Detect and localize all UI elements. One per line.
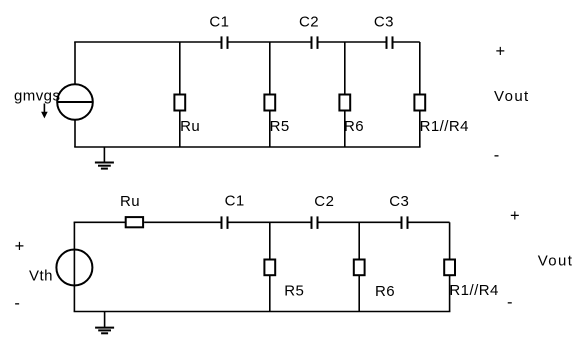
- svg-text:-: -: [494, 146, 500, 164]
- resistor R6 branch wire upper (bottom circuit): [358, 222, 360, 259]
- svg-text:Ru: Ru: [120, 193, 140, 210]
- svg-text:R5: R5: [270, 118, 290, 135]
- wire Ru to C1: [144, 221, 221, 223]
- resistor R5 branch wire upper (bottom circuit): [269, 222, 271, 259]
- svg-text:Ru: Ru: [180, 118, 200, 135]
- capacitor C1 plates: [222, 36, 228, 49]
- ground bar 3 (bottom circuit): [101, 332, 108, 334]
- resistor R5 branch wire upper: [269, 42, 271, 94]
- current source U1 chord: [57, 101, 93, 103]
- capacitor C3 plates: [387, 36, 393, 49]
- ground bar 2: [98, 165, 111, 167]
- wire C1 to C2: [228, 221, 310, 223]
- resistor R1//R4 box: [414, 95, 425, 111]
- resistor R6 branch wire lower: [344, 111, 346, 147]
- svg-text:+: +: [15, 238, 25, 256]
- svg-text:Vout: Vout: [538, 253, 574, 270]
- wire top rail segment 2: [228, 41, 310, 43]
- resistor Ru box (series): [126, 217, 143, 227]
- svg-text:R6: R6: [344, 118, 364, 135]
- resistor R1//R4 branch wire upper: [419, 42, 421, 94]
- capacitor C2 plates (bottom): [312, 216, 318, 229]
- svg-text:gmvgs: gmvgs: [14, 88, 60, 105]
- svg-text:+: +: [495, 43, 505, 61]
- capacitor C2 plates: [312, 36, 318, 49]
- svg-text:Vth: Vth: [29, 268, 53, 285]
- capacitor C1 plates (bottom): [222, 216, 228, 229]
- svg-text:C1: C1: [209, 13, 229, 30]
- svg-text:C1: C1: [225, 193, 245, 210]
- resistor Ru branch wire lower: [179, 111, 181, 147]
- wire top rail segment 3: [318, 41, 385, 43]
- wire bottom rail (bottom circuit): [74, 311, 451, 313]
- resistor R6 box: [339, 95, 350, 111]
- ground bar 1: [95, 162, 114, 164]
- current direction arrow: [41, 104, 48, 119]
- wire top-left vertical (source to top rail): [74, 42, 76, 84]
- wire C3 to right edge: [408, 221, 449, 223]
- svg-text:-: -: [507, 294, 513, 312]
- resistor Ru branch wire upper: [179, 42, 181, 94]
- wire left vertical through source: [73, 222, 75, 311]
- wire C2 to C3: [318, 221, 400, 223]
- resistor R5 box (bottom circuit): [264, 260, 275, 276]
- svg-text:R1//R4: R1//R4: [449, 282, 498, 299]
- wire source bottom to bottom rail: [74, 120, 76, 147]
- svg-text:C3: C3: [374, 13, 394, 30]
- resistor R6 branch wire upper: [344, 42, 346, 94]
- resistor R6 branch wire lower (bottom circuit): [358, 276, 360, 312]
- ground bar 1 (bottom circuit): [95, 327, 114, 329]
- resistor R6 box (bottom circuit): [354, 260, 365, 276]
- resistor R5 branch wire lower (bottom circuit): [269, 276, 271, 312]
- capacitor C3 plates (bottom): [402, 216, 408, 229]
- resistor R1//R4 box (bottom circuit): [444, 260, 455, 276]
- wire bottom rail: [74, 146, 420, 148]
- svg-text:R6: R6: [375, 283, 395, 300]
- wire top rail segment 1: [74, 41, 220, 43]
- current source U1 circle: [57, 84, 93, 120]
- svg-text:C2: C2: [314, 193, 334, 210]
- svg-text:R5: R5: [284, 283, 304, 300]
- voltage source Vth circle: [56, 250, 92, 286]
- ground bar 2 (bottom circuit): [98, 329, 111, 331]
- svg-text:C3: C3: [389, 193, 409, 210]
- resistor R1//R4 branch wire lower (bottom circuit): [449, 276, 451, 312]
- wire top rail segment 4: [393, 41, 419, 43]
- svg-text:C2: C2: [299, 13, 319, 30]
- svg-text:Vout: Vout: [494, 88, 530, 105]
- resistor Ru box: [174, 95, 185, 111]
- ground stem (bottom circuit): [104, 312, 106, 328]
- ground stem: [103, 147, 105, 163]
- svg-text:R1//R4: R1//R4: [420, 118, 469, 135]
- wire top rail to Ru: [74, 221, 126, 223]
- resistor R5 box: [264, 95, 275, 111]
- resistor R1//R4 branch wire lower: [419, 111, 421, 147]
- resistor R1//R4 branch wire upper (bottom circuit): [449, 222, 451, 259]
- resistor R5 branch wire lower: [269, 111, 271, 147]
- svg-text:-: -: [14, 294, 20, 312]
- ground bar 3: [101, 168, 108, 170]
- svg-text:+: +: [510, 207, 520, 225]
